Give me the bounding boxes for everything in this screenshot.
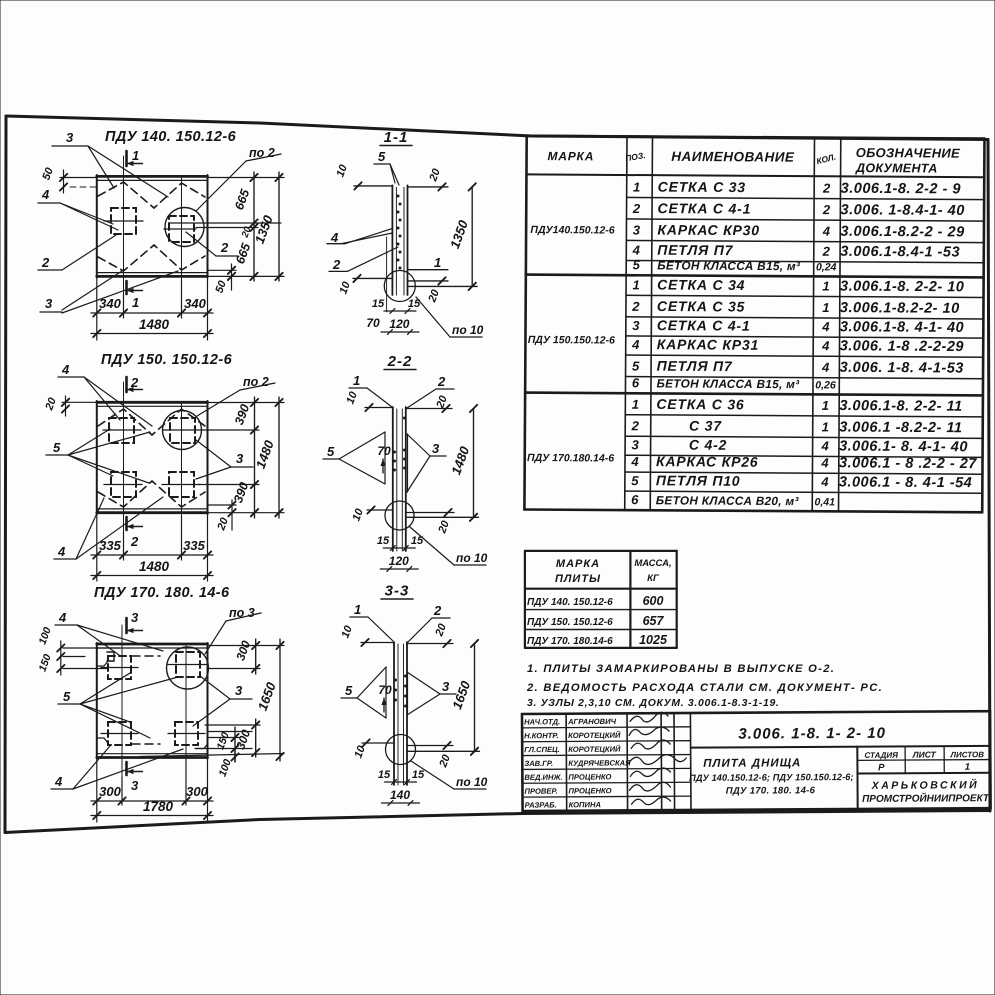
svg-text:0,24: 0,24	[816, 261, 837, 273]
svg-text:1: 1	[822, 419, 829, 434]
plan3 left axis	[121, 625, 123, 805]
svg-text:ПДУ 150.150.12-6: ПДУ 150.150.12-6	[528, 334, 615, 347]
section 3-3 bracket line for label 3	[407, 672, 409, 715]
svg-text:4: 4	[631, 337, 640, 352]
svg-text:1: 1	[822, 398, 829, 413]
plan3 square TL	[108, 656, 131, 679]
svg-text:1: 1	[354, 602, 361, 617]
plan1 top zigzag dashed	[98, 182, 205, 208]
svg-text:3.006.1-8. 4-1- 40: 3.006.1-8. 4-1- 40	[840, 319, 964, 336]
svg-text:ПДУ 140. 150.12-6: ПДУ 140. 150.12-6	[527, 597, 613, 608]
svg-text:3: 3	[631, 437, 639, 452]
plan3 dashed mesh bottom	[132, 743, 160, 745]
svg-text:3.006.1 -8.2-2- 11: 3.006.1 -8.2-2- 11	[839, 420, 962, 437]
svg-text:МАССА,: МАССА,	[634, 558, 671, 569]
svg-text:3: 3	[442, 679, 450, 694]
svg-text:ПЕТЛЯ П7: ПЕТЛЯ П7	[657, 242, 733, 258]
svg-text:2-2: 2-2	[387, 353, 413, 370]
plan3 section mark 3 bottom	[125, 762, 128, 775]
svg-text:4: 4	[821, 338, 830, 353]
svg-text:15: 15	[378, 769, 391, 781]
svg-text:3.006. 1-8. 4-1-53: 3.006. 1-8. 4-1-53	[840, 360, 964, 377]
svg-text:3: 3	[633, 222, 641, 237]
svg-text:4: 4	[820, 455, 829, 470]
plan1 left dashed square	[111, 208, 136, 234]
svg-text:5: 5	[327, 444, 335, 459]
svg-text:по 10: по 10	[456, 551, 488, 565]
svg-text:ПДУ 170. 180.14-6: ПДУ 170. 180.14-6	[527, 636, 613, 647]
svg-text:3-3: 3-3	[385, 583, 410, 600]
svg-text:3.006.1-8. 2-2- 11: 3.006.1-8. 2-2- 11	[839, 398, 962, 415]
svg-text:ПДУ 170. 180. 14-6: ПДУ 170. 180. 14-6	[726, 785, 816, 797]
section 1-1 wall outline	[391, 185, 393, 295]
plan2 right axis	[181, 402, 183, 558]
plan1 right dimension lines 665 20 665 1350	[208, 177, 285, 179]
svg-text:5: 5	[378, 149, 386, 164]
svg-text:1480: 1480	[139, 317, 170, 332]
svg-text:340: 340	[99, 296, 121, 311]
svg-text:ПДУ 170. 180. 14-6: ПДУ 170. 180. 14-6	[94, 585, 230, 601]
svg-text:СТАДИЯ: СТАДИЯ	[864, 751, 898, 760]
plan1 right axis	[181, 177, 183, 316]
svg-text:ВЕД.ИНЖ.: ВЕД.ИНЖ.	[524, 773, 562, 782]
svg-text:0,26: 0,26	[815, 379, 836, 391]
section 3-3 top extension lines	[361, 642, 394, 644]
svg-text:5: 5	[53, 440, 61, 455]
svg-text:4: 4	[632, 243, 641, 258]
svg-text:3: 3	[236, 451, 244, 466]
plan1 section mark 1 top	[125, 151, 128, 166]
svg-text:ДОКУМЕНТА: ДОКУМЕНТА	[855, 161, 938, 176]
svg-text:1480: 1480	[139, 559, 170, 574]
plan2 dim 20 bottom-right	[208, 504, 237, 506]
svg-text:ПДУ 150. 150.12-6: ПДУ 150. 150.12-6	[101, 352, 233, 368]
svg-text:2: 2	[822, 244, 831, 259]
svg-text:2. ВЕДОМОСТЬ РАСХОДА СТАЛИ: 2. ВЕДОМОСТЬ РАСХОДА СТАЛИ СМ. ДОКУМЕНТ-…	[526, 682, 883, 694]
svg-text:2: 2	[130, 534, 139, 549]
svg-text:СЕТКА С 4-1: СЕТКА С 4-1	[658, 200, 752, 217]
svg-text:120: 120	[389, 554, 409, 568]
plan2 circle node po2	[163, 411, 202, 450]
svg-text:2: 2	[631, 299, 640, 314]
svg-text:120: 120	[389, 317, 409, 331]
plan1 circle node po2	[165, 208, 204, 247]
svg-text:300: 300	[186, 784, 208, 799]
svg-text:КГ: КГ	[647, 573, 660, 584]
plan1 bottom zigzag dashed	[98, 245, 205, 271]
svg-text:ПЕТЛЯ П10: ПЕТЛЯ П10	[656, 472, 741, 489]
svg-text:5: 5	[345, 683, 353, 698]
svg-text:0,41: 0,41	[815, 496, 836, 508]
svg-text:3.006.1-8. 2-2- 10: 3.006.1-8. 2-2- 10	[840, 279, 964, 296]
svg-text:1: 1	[822, 279, 829, 294]
plan3 square BL	[108, 722, 131, 745]
plan3 circle node po3	[167, 647, 209, 689]
section 3-3 bottom extension lines	[362, 742, 394, 744]
plan2 plate outline	[97, 401, 208, 404]
svg-text:2: 2	[41, 255, 50, 270]
svg-text:СЕТКА С 33: СЕТКА С 33	[658, 179, 746, 196]
svg-text:3.006. 1-8 .2-2-29: 3.006. 1-8 .2-2-29	[840, 338, 964, 355]
svg-text:5: 5	[631, 473, 639, 488]
svg-text:3. УЗЛЫ 2,3,10 СМ. ДОКУМ. 3: 3. УЗЛЫ 2,3,10 СМ. ДОКУМ. 3.006.1-8.3-1-…	[527, 698, 780, 709]
svg-text:4: 4	[61, 362, 70, 377]
svg-text:КАРКАС КР26: КАРКАС КР26	[656, 453, 759, 470]
svg-text:1: 1	[353, 373, 360, 388]
plan3 dims 100 150 top-left	[63, 647, 119, 649]
svg-text:300: 300	[99, 784, 121, 799]
plan3 square TR	[176, 652, 200, 677]
svg-text:РАЗРАБ.: РАЗРАБ.	[525, 800, 557, 809]
plan1 dim 50 top-left	[60, 177, 96, 179]
sheet frame border	[6, 116, 532, 136]
section 2-2 top extension lines	[365, 407, 393, 409]
svg-text:КАРКАС КР30: КАРКАС КР30	[657, 222, 760, 239]
svg-text:3: 3	[131, 610, 139, 625]
plan2 dim 20 top-left	[62, 401, 96, 403]
svg-text:600: 600	[643, 594, 664, 608]
document number cell	[691, 746, 991, 748]
svg-text:СЕТКА С 34: СЕТКА С 34	[657, 276, 745, 293]
section 2-2 wall outline	[392, 407, 394, 551]
plan1 right dashed square	[169, 216, 194, 242]
svg-text:4: 4	[330, 230, 339, 245]
svg-text:3: 3	[131, 778, 139, 793]
section 2-2 bracket line for label 5	[384, 432, 386, 484]
svg-text:КОПИНА: КОПИНА	[569, 800, 601, 809]
svg-text:657: 657	[643, 614, 665, 628]
section 1-1 node circle	[384, 271, 415, 302]
svg-text:ПДУ140.150.12-6: ПДУ140.150.12-6	[530, 224, 614, 237]
svg-text:БЕТОН КЛАССА В15, м³: БЕТОН КЛАССА В15, м³	[657, 258, 801, 273]
plan1 left axis	[123, 156, 125, 316]
svg-text:ПЛИТЫ: ПЛИТЫ	[555, 573, 601, 585]
svg-text:СЕТКА С 35: СЕТКА С 35	[657, 298, 745, 315]
svg-text:70: 70	[366, 316, 380, 330]
svg-text:ЗАВ.ГР.: ЗАВ.ГР.	[524, 759, 553, 768]
plan3 square BR	[175, 722, 198, 745]
section 2-2 bracket line for label 3	[407, 434, 409, 492]
svg-text:1780: 1780	[143, 799, 174, 814]
svg-text:4: 4	[54, 774, 63, 789]
svg-text:2: 2	[433, 603, 442, 618]
svg-text:3: 3	[45, 296, 53, 311]
svg-text:335: 335	[99, 538, 121, 553]
plan3 plate outline	[97, 643, 208, 646]
plan2 section mark 2 top	[125, 377, 128, 392]
svg-text:4: 4	[57, 544, 66, 559]
svg-text:МАРКА: МАРКА	[556, 558, 600, 570]
svg-text:2: 2	[632, 201, 641, 216]
svg-text:ПДУ 150. 150.12-6: ПДУ 150. 150.12-6	[527, 617, 613, 628]
svg-text:1: 1	[434, 255, 441, 270]
signatures squiggles	[630, 712, 668, 722]
svg-text:3.006.1 - 8 .2-2 - 27: 3.006.1 - 8 .2-2 - 27	[839, 455, 977, 472]
plan2 section mark 2 bottom	[125, 517, 128, 530]
svg-text:ЛИСТОВ: ЛИСТОВ	[949, 750, 984, 759]
svg-text:ПРОМСТРОЙНИИПРОЕКТ: ПРОМСТРОЙНИИПРОЕКТ	[862, 791, 990, 805]
svg-text:5: 5	[632, 359, 640, 374]
svg-text:2: 2	[220, 240, 229, 255]
plan2 square TL	[109, 418, 134, 443]
svg-text:С 37: С 37	[656, 417, 722, 433]
section 3-3 node circle	[386, 735, 416, 765]
svg-text:4: 4	[820, 474, 829, 489]
svg-text:2: 2	[631, 418, 640, 433]
svg-text:БЕТОН КЛАССА В15, м³: БЕТОН КЛАССА В15, м³	[656, 376, 800, 391]
section 2-2 overall dimension 1480	[406, 516, 479, 518]
plan1 section mark 1 bottom	[125, 281, 128, 294]
svg-text:МАРКА: МАРКА	[547, 149, 594, 163]
svg-text:70: 70	[378, 683, 392, 697]
svg-text:1: 1	[632, 397, 639, 412]
svg-text:2: 2	[437, 374, 446, 389]
svg-text:5: 5	[633, 257, 641, 272]
svg-text:4: 4	[630, 454, 639, 469]
section 2-2 node circle	[385, 501, 414, 530]
section 1-1 top extension lines	[354, 185, 392, 187]
svg-text:3.006. 1-8.4-1- 40: 3.006. 1-8.4-1- 40	[841, 202, 965, 219]
section 3-3 reinforcement dots	[404, 675, 407, 678]
svg-text:1-1: 1-1	[384, 129, 409, 146]
svg-text:140: 140	[390, 788, 410, 802]
svg-text:3.006.1-8. 2-2 - 9: 3.006.1-8. 2-2 - 9	[841, 181, 961, 198]
svg-text:3: 3	[632, 318, 640, 333]
plan2 left axis	[123, 382, 125, 558]
svg-text:3.006.1-8.4-1 -53: 3.006.1-8.4-1 -53	[840, 244, 960, 261]
svg-text:КОРОТЕЦКИЙ: КОРОТЕЦКИЙ	[568, 745, 621, 754]
svg-text:2: 2	[130, 375, 139, 390]
svg-text:340: 340	[184, 296, 206, 311]
svg-text:1: 1	[132, 295, 139, 310]
table grid	[527, 136, 985, 139]
svg-text:ПРОЦЕНКО: ПРОЦЕНКО	[568, 786, 611, 795]
svg-text:6: 6	[632, 375, 640, 390]
svg-text:3: 3	[432, 441, 440, 456]
svg-text:КАРКАС КР31: КАРКАС КР31	[657, 336, 760, 353]
plan2 bottom zigzag dashed	[98, 481, 205, 507]
svg-text:БЕТОН КЛАССА В20, м³: БЕТОН КЛАССА В20, м³	[656, 493, 800, 508]
svg-text:2: 2	[332, 257, 341, 272]
svg-text:ОБОЗНАЧЕНИЕ: ОБОЗНАЧЕНИЕ	[856, 145, 960, 161]
svg-text:ЛИСТ: ЛИСТ	[912, 749, 937, 759]
svg-text:ПЕТЛЯ П7: ПЕТЛЯ П7	[657, 358, 733, 374]
svg-text:1: 1	[632, 277, 639, 292]
svg-text:Р: Р	[878, 762, 885, 773]
svg-text:3.006.1- 8. 4-1- 40: 3.006.1- 8. 4-1- 40	[839, 439, 968, 456]
svg-text:1: 1	[822, 300, 829, 315]
section 2-2 reinforcement dots	[403, 417, 406, 420]
plan2 right dimension lines 390 390 1480	[208, 402, 285, 404]
plan2 bottom dimension lines 335 335 1480	[96, 514, 98, 581]
stadia list listov cells	[857, 759, 990, 762]
svg-text:2: 2	[822, 202, 831, 217]
svg-text:1025: 1025	[639, 633, 668, 647]
svg-text:3: 3	[66, 130, 74, 145]
svg-text:4: 4	[821, 319, 830, 334]
plan1 bottom dimension lines 340 340 1480	[96, 278, 98, 340]
svg-text:ПДУ 170.180.14-6: ПДУ 170.180.14-6	[527, 452, 614, 465]
svg-text:СЕТКА С 4-1: СЕТКА С 4-1	[657, 317, 751, 334]
section 3-3 bracket line for label 5	[385, 667, 387, 718]
svg-text:6: 6	[631, 492, 639, 507]
svg-text:КОРОТЕЦКИЙ: КОРОТЕЦКИЙ	[568, 731, 621, 740]
svg-text:15: 15	[372, 298, 385, 310]
svg-text:АГРАНОВИЧ: АГРАНОВИЧ	[567, 717, 617, 726]
svg-text:15: 15	[377, 535, 390, 547]
plan3 section mark 3 top	[125, 618, 128, 633]
svg-text:ПРОЦЕНКО: ПРОЦЕНКО	[568, 772, 611, 781]
svg-text:3: 3	[235, 683, 243, 698]
section 1-1 reinforcement dots	[397, 195, 400, 198]
mass table	[525, 550, 677, 552]
svg-text:по 10: по 10	[452, 323, 484, 337]
plan3 mesh step lines bottom-right	[97, 738, 108, 743]
svg-text:4: 4	[822, 224, 831, 239]
svg-text:1. ПЛИТЫ ЗАМАРКИРОВАНЫ В ВЫ: 1. ПЛИТЫ ЗАМАРКИРОВАНЫ В ВЫПУСКЕ О-2.	[527, 663, 835, 675]
section 3-3 overall dimension 1650	[407, 750, 480, 752]
svg-text:Н.КОНТР.: Н.КОНТР.	[524, 731, 558, 740]
svg-text:ПДУ 140. 150.12-6: ПДУ 140. 150.12-6	[105, 129, 237, 145]
plan2 top zigzag dashed	[98, 409, 205, 435]
svg-text:3.006.1 - 8. 4-1 -54: 3.006.1 - 8. 4-1 -54	[839, 474, 972, 491]
plan2 square BL	[111, 472, 136, 497]
plan1 dim 50 bottom-right	[208, 269, 237, 271]
svg-text:4: 4	[41, 187, 50, 202]
section 1-1 bottom extension lines	[353, 277, 392, 279]
svg-text:ХАРЬКОВСКИЙ: ХАРЬКОВСКИЙ	[871, 778, 980, 792]
plan3 mesh step lines top-left	[107, 652, 114, 661]
signature table grid	[522, 727, 690, 728]
svg-text:ГЛ.СПЕЦ.: ГЛ.СПЕЦ.	[524, 745, 560, 754]
plan2 square BR	[169, 472, 194, 497]
svg-text:ПДУ 140.150.12-6; ПДУ 150.150.: ПДУ 140.150.12-6; ПДУ 150.150.12-6;	[689, 772, 854, 783]
svg-text:ПЛИТА ДНИЩА: ПЛИТА ДНИЩА	[703, 757, 801, 770]
svg-text:5: 5	[63, 689, 71, 704]
svg-text:335: 335	[183, 538, 205, 553]
section 1-1 overall dimension 1350	[408, 285, 478, 287]
svg-text:ПРОВЕР.: ПРОВЕР.	[524, 787, 557, 796]
plan3 dashed mesh top	[132, 655, 160, 657]
svg-text:С 4-2: С 4-2	[656, 436, 727, 452]
svg-text:1: 1	[132, 148, 139, 163]
section 2-2 bottom extension lines	[367, 509, 393, 511]
svg-text:4: 4	[820, 438, 829, 453]
svg-text:15: 15	[412, 769, 425, 781]
svg-text:70: 70	[377, 444, 391, 458]
plan2 square TR	[170, 418, 195, 443]
svg-text:3.006.1-8.2-2- 10: 3.006.1-8.2-2- 10	[840, 300, 960, 317]
svg-text:НАИМЕНОВАНИЕ: НАИМЕНОВАНИЕ	[671, 149, 795, 165]
svg-text:НАЧ.ОТД.: НАЧ.ОТД.	[524, 717, 560, 726]
svg-text:по 10: по 10	[456, 775, 488, 789]
svg-text:КУДРЯЧЕВСКАЯ: КУДРЯЧЕВСКАЯ	[568, 758, 631, 767]
section 3-3 wall outline	[393, 642, 395, 785]
name cell	[856, 747, 858, 809]
svg-text:3.006.1-8.2-2 - 29: 3.006.1-8.2-2 - 29	[840, 224, 964, 241]
svg-text:1: 1	[965, 762, 970, 773]
plan3 bottom dims 300 300 1780	[96, 759, 98, 822]
section 1-1 foot bar line	[386, 237, 388, 312]
title block outer frame	[522, 711, 991, 811]
svg-text:СЕТКА С 36: СЕТКА С 36	[656, 396, 744, 413]
plan3 right dims 300 1650 300 150 100	[208, 645, 285, 647]
svg-text:2: 2	[822, 181, 831, 196]
svg-text:4: 4	[821, 360, 830, 375]
svg-text:1: 1	[633, 179, 640, 194]
svg-text:4: 4	[58, 610, 67, 625]
plan1 plate outline	[97, 175, 208, 178]
plan3 right axis	[185, 644, 187, 805]
svg-text:3.006. 1-8. 1- 2- 10: 3.006. 1-8. 1- 2- 10	[738, 725, 886, 743]
